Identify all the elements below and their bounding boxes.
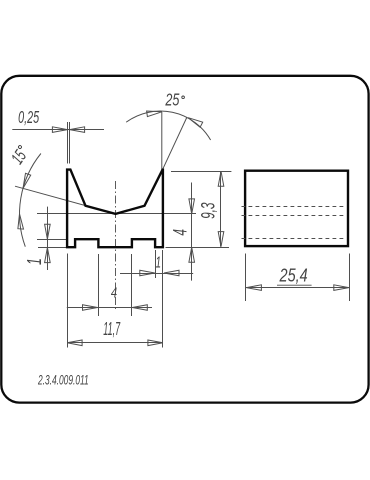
dimension line 11,7: [67, 342, 163, 344]
arrow 4h right: [132, 305, 147, 311]
vertical reference line for 25 deg: [161, 112, 163, 172]
arrow 25deg arc left: [147, 111, 162, 117]
extension line below notch right edge: [155, 250, 157, 278]
label 25 deg: [165, 90, 180, 110]
label 15 deg: [8, 144, 33, 169]
arrow 1h left: [140, 270, 155, 276]
arrow 4v top: [189, 199, 195, 214]
extension line V-bottom (continuous): [37, 213, 196, 215]
arrow 25,4 left: [246, 285, 261, 291]
arrow 25,4 right: [334, 285, 349, 291]
extension lines 0,25: [67, 122, 69, 164]
extension line foot-top left: [37, 239, 66, 241]
25 degree construction line extension: [163, 117, 188, 170]
label 1 vertical: [23, 258, 46, 265]
extension line bottom right: [166, 247, 230, 249]
title number 2.3.4.009.011: [37, 373, 88, 388]
svg-text:11,7: 11,7: [103, 320, 121, 340]
arrow 9,3 bottom: [218, 232, 224, 247]
dimension line 1 vertical left: [47, 207, 49, 270]
svg-text:9,3: 9,3: [199, 202, 219, 219]
arrow 25deg arc right: [188, 118, 203, 128]
degree mark of 15: [18, 145, 22, 149]
degree mark of 25: [182, 96, 185, 99]
label 4 vertical: [171, 229, 191, 236]
arrow 4v bottom: [189, 247, 195, 262]
extension line top right: [171, 171, 231, 173]
svg-text:25: 25: [165, 90, 180, 110]
arrow 0,25 left: [52, 127, 67, 133]
extension lines 25,4: [245, 254, 247, 302]
dimension line 1 horizontal: [120, 273, 193, 275]
dimension line 4 vertical: [191, 183, 193, 281]
label 0,25: [18, 108, 40, 127]
svg-text:0,25: 0,25: [18, 108, 40, 127]
arrow 11,7 left: [67, 340, 82, 346]
extension line below mid-foot right: [131, 254, 133, 316]
centerline of profile: [115, 181, 117, 310]
svg-text:4: 4: [171, 229, 191, 236]
dimension line 25,4: [246, 287, 350, 289]
hidden line foot-top level: [242, 238, 347, 240]
15 degree dimension arc: [20, 154, 41, 247]
arrow 4h left: [83, 305, 98, 311]
label 9,3 vertical: [199, 202, 219, 219]
arrow 9,3 top: [218, 171, 224, 186]
arrow 15deg arc bottom: [18, 214, 24, 229]
drawing sheet border: [1, 76, 368, 403]
label 4 horizontal: [111, 284, 117, 301]
svg-text:1: 1: [156, 253, 162, 271]
hidden line knee level: [242, 206, 347, 208]
25 degree dimension arc: [126, 111, 210, 140]
arrow 0,25 right: [70, 127, 85, 133]
label 1 horizontal: [156, 253, 162, 271]
svg-text:25,4: 25,4: [279, 265, 308, 286]
dimension line 4 horizontal: [67, 307, 152, 309]
svg-text:4: 4: [111, 284, 117, 301]
dimension line 0,25: [12, 129, 104, 131]
underline for 25,4: [277, 284, 312, 286]
arrow 1v bottom: [45, 248, 51, 263]
hidden line V-bottom level: [242, 215, 347, 217]
extension line below mid-foot left: [98, 254, 100, 316]
label 11,7: [103, 320, 121, 340]
svg-text:1: 1: [23, 258, 46, 265]
extension line bottom left: [38, 247, 66, 249]
side view rectangle: [245, 171, 348, 246]
arrow 11,7 right: [148, 340, 163, 346]
15 degree construction line: [15, 186, 116, 214]
dimension line 9,3 vertical: [220, 172, 222, 247]
extension line below left wall: [67, 254, 69, 348]
svg-text:2.3.4.009.011: 2.3.4.009.011: [37, 373, 88, 388]
label 25,4 underlined: [279, 265, 308, 286]
arrow 1h right: [164, 270, 179, 276]
arrow 15deg arc top: [23, 173, 31, 188]
part outline (front view profile): [67, 170, 163, 248]
extension line below right wall: [162, 250, 164, 348]
arrow 1v top: [45, 224, 51, 239]
